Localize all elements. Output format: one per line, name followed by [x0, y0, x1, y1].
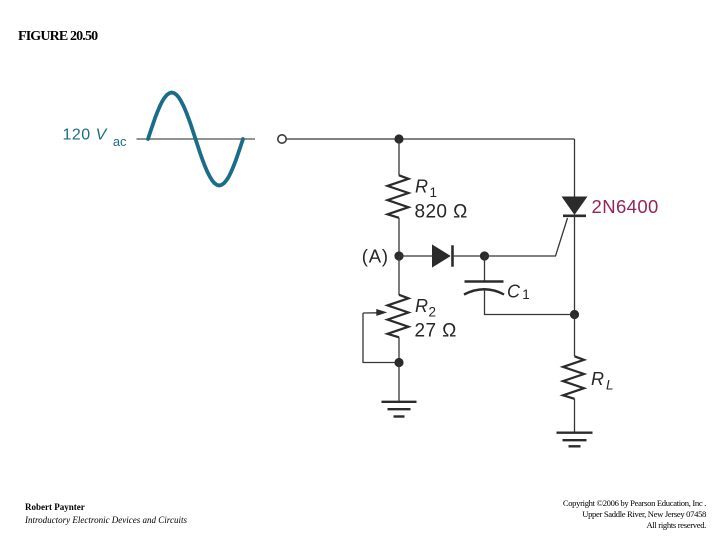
- label R1: [415, 176, 437, 200]
- wire: C1 to lower right node: [485, 290, 575, 315]
- rheostat R2: [388, 295, 409, 338]
- wire: top node down to R1: [398, 139, 400, 176]
- svg-text:L: L: [606, 378, 614, 393]
- svg-text:820 Ω: 820 Ω: [415, 201, 468, 222]
- node: gate/capacitor junction: [480, 251, 489, 260]
- ground (R2): [382, 402, 417, 417]
- wire: RL to ground: [574, 399, 576, 433]
- svg-text:(A): (A): [362, 245, 389, 266]
- svg-text:R: R: [415, 176, 428, 196]
- capacitor C1: [464, 282, 504, 295]
- footer copyright: [563, 498, 706, 531]
- figure caption: [18, 29, 97, 45]
- wire: wiper loop: [363, 313, 399, 363]
- wire: terminal to top node: [287, 138, 400, 140]
- node: top junction: [394, 134, 403, 143]
- svg-text:2N6400: 2N6400: [592, 196, 659, 217]
- wire: node A down to R2: [398, 256, 400, 295]
- svg-text:1: 1: [430, 185, 438, 200]
- sine wave: [148, 93, 243, 186]
- ground (RL): [557, 433, 593, 447]
- value 27 ohm: [415, 320, 457, 341]
- wire: node to SCR gate: [485, 218, 568, 256]
- open terminal: [278, 135, 286, 143]
- SCR 2N6400: [563, 197, 587, 216]
- wire: top node to SCR column: [399, 138, 575, 140]
- svg-text:27 Ω: 27 Ω: [415, 320, 457, 341]
- node: R2 bottom junction: [394, 358, 403, 367]
- rheostat wiper arrow: [363, 309, 387, 316]
- label R2: [415, 296, 436, 320]
- source baseline: [137, 138, 256, 140]
- wire: top wire down to SCR anode: [574, 139, 576, 198]
- value 820 ohm: [415, 201, 468, 222]
- svg-text:R: R: [415, 296, 428, 316]
- svg-text:2: 2: [429, 305, 437, 320]
- wire: node A to diode: [399, 255, 433, 257]
- diode D1: [433, 245, 453, 266]
- resistor RL: [563, 356, 584, 399]
- svg-text:120 Vac: 120 Vac: [63, 126, 128, 149]
- wire: node to ground: [398, 363, 400, 402]
- node: cathode/load junction: [570, 310, 579, 319]
- node: junction A: [394, 251, 403, 260]
- label C1: [507, 281, 530, 302]
- wire: node down to C1: [484, 256, 486, 282]
- wire: diode to gate node: [453, 255, 485, 257]
- footer author: [25, 502, 85, 512]
- label 2N6400: [592, 196, 659, 217]
- source label 120 Vac: [63, 126, 128, 149]
- svg-text:C: C: [507, 281, 521, 301]
- wire: node down to RL: [574, 315, 576, 357]
- svg-text:R: R: [591, 369, 604, 389]
- label RL: [591, 369, 614, 392]
- node A label: [362, 245, 389, 266]
- wire: SCR cathode to lower node: [574, 216, 576, 315]
- resistor R1: [388, 175, 409, 218]
- wire: R2 to bottom node: [398, 337, 400, 362]
- svg-text:1: 1: [522, 287, 530, 302]
- wire: R1 to node A: [398, 218, 400, 256]
